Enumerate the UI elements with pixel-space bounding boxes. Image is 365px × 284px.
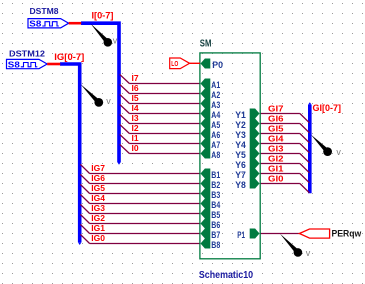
svg-text:IG1: IG1 (91, 223, 105, 233)
svg-text:IG7: IG7 (91, 163, 105, 173)
svg-text:I4: I4 (132, 103, 139, 113)
svg-text:LO: LO (171, 61, 178, 68)
svg-text:Schematic10: Schematic10 (199, 269, 253, 281)
svg-text:I5: I5 (132, 93, 139, 103)
svg-text:v: v (113, 36, 118, 46)
svg-text:GI4: GI4 (268, 133, 284, 143)
svg-text:I3: I3 (132, 113, 139, 123)
svg-text:IG[0-7]: IG[0-7] (54, 52, 84, 62)
svg-text:I7: I7 (132, 73, 139, 83)
svg-text:v: v (106, 96, 111, 106)
svg-text:S8: S8 (8, 60, 21, 69)
svg-text:GI2: GI2 (268, 153, 284, 163)
svg-text:GI1: GI1 (268, 163, 284, 173)
svg-text:IG5: IG5 (91, 183, 105, 193)
svg-text:DSTM12: DSTM12 (9, 50, 46, 59)
svg-text:I[0-7]: I[0-7] (92, 11, 114, 21)
svg-text:GI[0-7]: GI[0-7] (313, 103, 342, 113)
svg-text:P1: P1 (237, 230, 245, 241)
svg-text:IG0: IG0 (91, 233, 105, 243)
svg-text:GI7: GI7 (268, 103, 284, 113)
svg-text:PERqw: PERqw (332, 229, 362, 240)
svg-text:I0: I0 (132, 143, 139, 153)
svg-text:GI5: GI5 (268, 123, 284, 133)
svg-text:v: v (336, 147, 341, 157)
svg-text:A8: A8 (211, 150, 220, 161)
svg-text:B8: B8 (211, 240, 220, 251)
svg-text:Y8: Y8 (235, 180, 246, 191)
svg-text:GI3: GI3 (268, 143, 284, 153)
svg-text:IG6: IG6 (91, 173, 105, 183)
svg-text:P0: P0 (212, 60, 223, 71)
svg-text:IG4: IG4 (91, 193, 105, 203)
svg-text:I6: I6 (132, 83, 139, 93)
svg-text:I2: I2 (132, 123, 139, 133)
svg-text:I1: I1 (132, 133, 139, 143)
svg-text:DSTM8: DSTM8 (30, 7, 60, 16)
svg-text:S8: S8 (29, 20, 42, 29)
svg-text:GI6: GI6 (268, 113, 284, 123)
svg-text:SM: SM (200, 37, 212, 49)
svg-text:IG3: IG3 (91, 203, 105, 213)
svg-text:v: v (306, 248, 311, 258)
svg-text:IG2: IG2 (91, 213, 105, 223)
svg-text:GI0: GI0 (268, 173, 284, 183)
